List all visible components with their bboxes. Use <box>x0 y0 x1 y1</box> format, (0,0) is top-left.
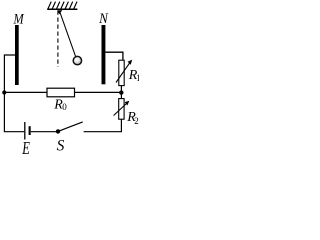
capacitor plate N <box>102 25 106 84</box>
svg-text:M: M <box>13 11 25 27</box>
wire <box>120 86 122 99</box>
rheostat R1 <box>119 60 124 85</box>
wire <box>4 55 15 92</box>
arrow R1 <box>116 60 132 83</box>
svg-text:R2: R2 <box>126 110 139 126</box>
wire <box>4 93 24 132</box>
rheostat R2 <box>119 99 124 120</box>
ceiling <box>47 2 77 10</box>
svg-text:R0: R0 <box>53 97 67 112</box>
wire <box>31 131 58 133</box>
svg-text:R1: R1 <box>128 68 139 83</box>
pendulum string <box>59 11 75 57</box>
svg-text:N: N <box>98 11 108 27</box>
wire <box>105 52 123 60</box>
capacitor plate M <box>15 25 19 85</box>
svg-text:S: S <box>57 137 65 154</box>
battery E <box>25 122 31 140</box>
pendulum ball <box>73 56 81 64</box>
resistor R0 <box>47 88 75 97</box>
node left junction <box>2 90 6 94</box>
arrow R2 <box>114 101 130 116</box>
switch S <box>56 122 83 134</box>
wire <box>4 91 121 93</box>
svg-text:E: E <box>22 138 30 154</box>
wire <box>84 119 122 132</box>
node right junction <box>119 90 123 94</box>
pendulum pivot <box>57 10 62 14</box>
plumb line <box>57 11 59 68</box>
